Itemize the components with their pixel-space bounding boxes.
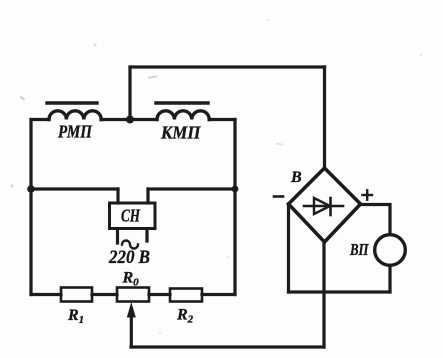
wire R2 to right corner <box>202 293 235 296</box>
svg-text:R1: R1 <box>67 307 84 326</box>
bridge rectifier В diamond <box>289 168 361 242</box>
core bar of КМП <box>156 101 208 104</box>
resistor R1 <box>61 288 92 302</box>
svg-text:РМП: РМП <box>57 122 93 142</box>
core bar of РМП <box>47 101 97 104</box>
diode triangle <box>314 198 330 214</box>
junction node right middle <box>232 186 239 193</box>
wire top horizontal <box>130 65 325 68</box>
svg-text:ВП: ВП <box>349 240 369 259</box>
svg-text:220 В: 220 В <box>108 248 150 268</box>
wire bridge bottom drop <box>322 242 325 347</box>
wire СН left top leg <box>116 189 119 203</box>
resistor R0 <box>117 288 149 302</box>
svg-text:КМП: КМП <box>160 123 201 143</box>
resistor R2 <box>170 289 202 302</box>
svg-text:R0: R0 <box>122 270 140 289</box>
svg-text:R2: R2 <box>176 307 194 326</box>
wiper arrow head <box>127 302 136 318</box>
wire bridge plus to meter <box>361 205 391 235</box>
AC tilde symbol <box>122 241 138 249</box>
wire bottom row left <box>31 293 61 296</box>
wire middle left segment <box>31 187 118 190</box>
wire right drop to bridge <box>323 67 326 169</box>
inductor РМП coil <box>49 111 101 120</box>
svg-text:СН: СН <box>121 206 141 226</box>
wire СН right top leg <box>146 189 149 203</box>
inductor КМП coil <box>157 111 209 120</box>
svg-text:В: В <box>290 169 302 186</box>
plus sign <box>363 194 373 196</box>
wire riser from junction <box>128 67 131 120</box>
voltage stabilizer СН box <box>110 203 156 229</box>
wire R0 to R2 <box>149 293 170 296</box>
wire КМП to right corner <box>209 118 235 121</box>
wire right vertical of left loop <box>233 120 236 295</box>
junction node between coils <box>126 116 134 124</box>
СН lower right lead <box>145 229 148 241</box>
wire minus-to-meter horizontal <box>289 290 391 293</box>
wire bottom horizontal <box>131 345 324 348</box>
minus sign <box>274 195 283 198</box>
diode cathode bar <box>329 198 332 215</box>
meter ВП circle <box>375 235 406 266</box>
wire middle right segment <box>148 187 235 190</box>
wire meter bottom drop <box>388 266 391 293</box>
diode lead line <box>304 205 343 208</box>
wire between coils <box>101 118 157 121</box>
junction node left middle <box>27 185 35 193</box>
wiper arrow stem <box>130 315 133 347</box>
wire minus vertical <box>287 204 290 292</box>
СН lower left lead <box>116 229 119 243</box>
wire left vertical <box>29 120 32 295</box>
wire R1 to R0 <box>92 293 117 296</box>
wire top-left horizontal <box>31 118 49 121</box>
